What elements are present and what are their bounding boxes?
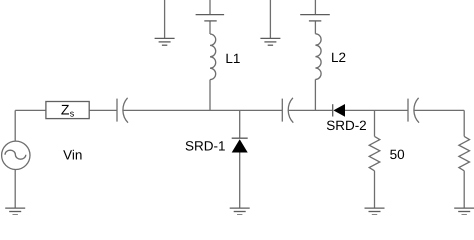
- svg-text:Vin: Vin: [63, 147, 82, 162]
- svg-text:L1: L1: [225, 51, 240, 66]
- svg-text:L2: L2: [331, 50, 346, 65]
- svg-text:50: 50: [390, 147, 405, 162]
- svg-text:s: s: [70, 109, 75, 119]
- svg-text:SRD-1: SRD-1: [185, 138, 226, 153]
- svg-text:Z: Z: [61, 101, 70, 117]
- svg-text:SRD-2: SRD-2: [326, 118, 367, 133]
